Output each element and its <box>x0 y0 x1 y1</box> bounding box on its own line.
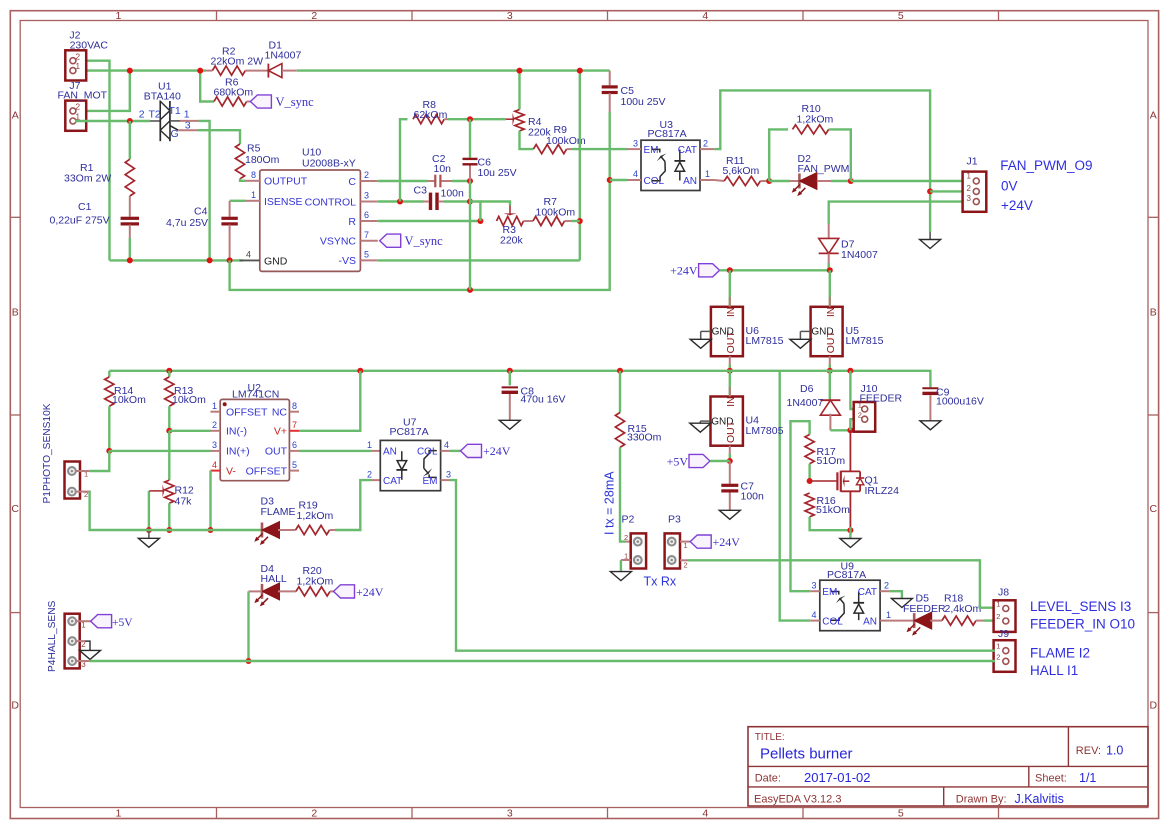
svg-text:8: 8 <box>292 401 297 411</box>
wire U9 AN to D5 <box>890 620 915 622</box>
capacitor C9 <box>922 387 938 389</box>
wire +24V rail <box>720 269 830 271</box>
svg-text:CAT: CAT <box>678 145 697 156</box>
wire node to D2 cathode <box>769 180 790 182</box>
junction -VS/DC bus <box>577 68 583 74</box>
svg-text:1: 1 <box>75 61 80 71</box>
regulator U6 LM7815 <box>711 307 743 356</box>
wire gate <box>810 480 839 482</box>
ground at P4 <box>80 650 101 659</box>
wire C3 to C6 column <box>444 200 470 202</box>
junction bus/C8 <box>507 368 513 374</box>
wire R9 to U3 pin3 <box>567 148 572 150</box>
svg-text:P1PHOTO_SENS10K: P1PHOTO_SENS10K <box>42 403 53 503</box>
wire LEVEL_SENS long wire to J8 pin1 <box>688 560 995 607</box>
wire U6 OUT to +15 bus <box>729 365 731 371</box>
svg-text:2: 2 <box>75 51 80 61</box>
junction -VS/R7 <box>577 218 583 224</box>
svg-text:3: 3 <box>507 10 513 22</box>
svg-text:LM7805: LM7805 <box>746 425 784 437</box>
svg-text:C: C <box>348 176 356 188</box>
svg-text:FEEDER_IN O10: FEEDER_IN O10 <box>1030 617 1135 632</box>
svg-text:2: 2 <box>967 184 972 193</box>
svg-text:+5V: +5V <box>667 454 689 468</box>
wire U4 OUT to +5V node <box>729 454 731 462</box>
svg-text:100u 25V: 100u 25V <box>621 96 666 108</box>
wire GND bus under U10 <box>110 259 244 261</box>
svg-text:FLAME I2: FLAME I2 <box>1030 645 1090 660</box>
svg-text:A: A <box>1150 110 1157 122</box>
svg-text:0V: 0V <box>1001 179 1018 194</box>
junction bus/R13 <box>166 368 172 374</box>
svg-text:I tx = 28mA: I tx = 28mA <box>603 471 617 535</box>
U2 pin1 marker dot <box>223 402 227 406</box>
U10 pin 7 VSYNC <box>360 240 377 242</box>
svg-text:51kOm: 51kOm <box>816 504 850 516</box>
U2 pin 6 OUT <box>289 450 299 452</box>
svg-text:7: 7 <box>364 230 369 240</box>
wire +15V bus <box>109 371 930 388</box>
diode D1 <box>267 64 269 78</box>
ground at sensor bus <box>148 530 150 538</box>
wire J2.1 phase to R2 <box>75 69 206 71</box>
resistor R14 <box>108 371 110 377</box>
svg-text:5: 5 <box>898 10 904 22</box>
wire R8 to R4 wiper arrow <box>444 118 448 120</box>
capacitor C2 <box>428 180 435 182</box>
wire C6 column <box>469 119 471 158</box>
svg-text:33Om 2W: 33Om 2W <box>64 173 111 185</box>
svg-text:LM7815: LM7815 <box>846 335 884 347</box>
resistor R13 <box>168 371 170 377</box>
ground at U9 CAT <box>891 599 912 608</box>
wire R8 branch vertical <box>400 119 408 201</box>
svg-text:5: 5 <box>292 460 297 470</box>
resistor R11 <box>724 176 760 185</box>
junction +24V/U6 <box>727 267 733 273</box>
svg-text:COL: COL <box>417 447 438 458</box>
svg-text:ISENSE: ISENSE <box>264 196 303 208</box>
svg-text:4: 4 <box>212 460 217 470</box>
svg-text:2: 2 <box>703 138 708 148</box>
connector J9 <box>994 640 1016 672</box>
wire IN- to U2 pin2 <box>169 430 210 432</box>
svg-text:OUT: OUT <box>725 331 737 354</box>
svg-text:1: 1 <box>967 172 972 181</box>
svg-text:P3: P3 <box>668 514 681 526</box>
net flag V_sync at U10 VSYNC <box>380 234 401 247</box>
svg-text:IN(-): IN(-) <box>226 426 247 438</box>
svg-text:7: 7 <box>292 420 297 430</box>
resistor R6 <box>214 97 247 106</box>
svg-text:1: 1 <box>251 190 256 200</box>
svg-text:OUT: OUT <box>725 420 737 443</box>
svg-text:2: 2 <box>684 561 688 570</box>
svg-text:1: 1 <box>886 610 891 620</box>
resistor R17 <box>805 435 814 464</box>
svg-text:3: 3 <box>507 807 513 819</box>
led D5 <box>913 613 916 628</box>
svg-text:CAT: CAT <box>383 476 402 487</box>
wire R3 to R7 <box>524 220 534 222</box>
svg-text:B: B <box>12 307 19 319</box>
U2 pin 1 OFFSET <box>211 411 221 413</box>
regulator U5 LM7815 <box>811 307 843 356</box>
potentiometer R3 <box>497 216 524 225</box>
U6 pin stubs <box>729 297 731 307</box>
svg-text:OFFSET: OFFSET <box>246 465 288 477</box>
svg-text:FAN_MOT: FAN_MOT <box>58 90 108 102</box>
wire D1 to DC bus <box>282 70 297 72</box>
svg-text:1/1: 1/1 <box>1079 771 1096 785</box>
U3 internal diode <box>679 150 681 161</box>
svg-text:LM741CN: LM741CN <box>232 389 279 401</box>
U3 pin 1 AN <box>700 179 714 181</box>
U9 pin 3 EM <box>810 590 820 592</box>
svg-text:3: 3 <box>633 138 638 148</box>
wire IN+ to U2 pin3 <box>109 450 210 452</box>
wire P4.1 to +5V flag <box>75 620 91 622</box>
svg-text:AN: AN <box>383 447 397 458</box>
wire R17 to gate node <box>808 464 810 481</box>
svg-text:10n: 10n <box>434 163 452 175</box>
junction C2/C6 column <box>467 178 473 184</box>
wire R6 to V_sync flag <box>247 101 251 103</box>
svg-text:330Om: 330Om <box>627 432 662 444</box>
connector J1 <box>963 172 987 212</box>
svg-text:0,22uF 275V: 0,22uF 275V <box>50 215 110 227</box>
U10 pin 2 C <box>360 180 377 182</box>
svg-text:+24V: +24V <box>713 535 741 549</box>
svg-text:2: 2 <box>75 102 80 112</box>
svg-text:1N4007: 1N4007 <box>787 397 824 409</box>
svg-text:G: G <box>171 128 179 140</box>
resistor R7 <box>533 216 565 225</box>
svg-text:1: 1 <box>115 807 121 819</box>
U4 pin stubs <box>729 387 731 397</box>
ground at C7 <box>719 510 740 519</box>
junction C3/C6 column <box>467 199 473 205</box>
frame column ticks <box>216 11 218 21</box>
svg-text:OFFSET: OFFSET <box>226 406 268 418</box>
U2 pin 5 OFFSET <box>289 470 299 472</box>
connector P2 <box>631 533 646 568</box>
wire R14 to IN+ node <box>108 406 110 451</box>
svg-text:100n: 100n <box>441 187 465 199</box>
diode D7 <box>828 224 830 240</box>
ground at C9 <box>920 421 941 430</box>
svg-text:+24V: +24V <box>670 264 698 278</box>
junction source node <box>847 527 853 533</box>
svg-text:NC: NC <box>272 406 288 418</box>
wire CONTROL jumper to R3 left <box>470 202 480 222</box>
svg-text:2: 2 <box>139 108 145 120</box>
svg-text:3: 3 <box>212 440 217 450</box>
svg-text:2: 2 <box>996 612 1000 621</box>
svg-text:4: 4 <box>812 610 817 620</box>
junction D6/J10.2/Q1 drain <box>847 427 853 433</box>
U10 pin 3 CONTROL <box>360 201 377 203</box>
wire U6 IN <box>729 270 731 307</box>
svg-text:3: 3 <box>967 194 972 203</box>
U7 internal diode <box>401 451 403 460</box>
svg-text:Tx Rx: Tx Rx <box>644 574 677 588</box>
U9 internal diode <box>858 592 860 603</box>
svg-text:OUT: OUT <box>825 331 837 354</box>
svg-text:1: 1 <box>705 169 710 179</box>
wire U3 AN to R11 <box>714 180 724 181</box>
junction J2.1/J7.2 <box>127 68 133 74</box>
svg-text:62kOm: 62kOm <box>414 109 448 121</box>
wire R1/C1 branch down <box>129 121 131 159</box>
resistor R5 <box>235 144 244 179</box>
capacitor C1 <box>121 217 139 220</box>
wire R5 to U10 pin8 <box>240 179 246 181</box>
connector J8 <box>994 600 1016 632</box>
svg-text:1,2kOm: 1,2kOm <box>797 114 834 126</box>
svg-text:PC817A: PC817A <box>827 569 866 581</box>
svg-text:2: 2 <box>212 420 217 430</box>
wire D4 cathode down to HALL wire <box>249 590 263 592</box>
svg-text:EM: EM <box>644 145 659 156</box>
svg-text:2: 2 <box>884 580 889 590</box>
svg-text:+24V: +24V <box>483 444 511 458</box>
svg-text:CAT: CAT <box>858 587 877 598</box>
svg-text:REV:: REV: <box>1076 745 1101 757</box>
wire U9 CAT to ground <box>890 591 902 598</box>
svg-text:10u 25V: 10u 25V <box>478 167 517 179</box>
svg-text:1.0: 1.0 <box>1106 743 1123 757</box>
junction IN- node <box>166 428 172 434</box>
wire J7.1 to triac T2 <box>75 120 150 122</box>
wire J1 pin3 to D7 <box>829 202 973 224</box>
wire R7 to -VS vertical <box>565 220 572 222</box>
wire R18 to J8 pin2 <box>976 620 984 622</box>
wire branch to J7.2 <box>75 71 130 111</box>
junction C1/GND bus <box>127 257 133 263</box>
resistor R20 <box>278 590 296 592</box>
svg-text:HALL: HALL <box>261 573 287 585</box>
junction bus/R15 <box>617 368 623 374</box>
svg-text:B: B <box>1150 307 1157 319</box>
capacitor C4 <box>229 201 231 217</box>
U2 pin 7 V+ <box>289 430 299 432</box>
svg-text:1000u16V: 1000u16V <box>936 396 984 408</box>
svg-text:TITLE:: TITLE: <box>755 732 785 743</box>
svg-text:+24V: +24V <box>1001 198 1033 213</box>
svg-text:PC817A: PC817A <box>390 426 429 438</box>
svg-text:1N4007: 1N4007 <box>265 49 302 61</box>
opamp U2 LM741CN box <box>220 399 289 480</box>
svg-text:T2: T2 <box>149 109 161 121</box>
junction J7.1/R1 <box>127 118 133 124</box>
svg-text:V_sync: V_sync <box>276 95 315 109</box>
svg-text:8: 8 <box>251 170 256 180</box>
wire P2.1 to ground <box>621 559 631 561</box>
U10 pin 1 ISENSE <box>246 200 260 202</box>
optocoupler U9 PC817A box <box>820 580 880 631</box>
svg-text:FEEDER: FEEDER <box>860 393 903 405</box>
potentiometer R4 <box>518 71 520 110</box>
U10 pin 8 OUTPUT <box>246 180 260 182</box>
wire J1 pin2 <box>930 190 973 192</box>
R12 wiper arrow <box>148 491 150 530</box>
svg-text:4: 4 <box>702 807 708 819</box>
U5 pin stubs <box>829 297 831 307</box>
resistor R8 <box>413 115 444 124</box>
svg-text:2: 2 <box>624 533 628 542</box>
wire R13 to IN- node <box>168 406 170 431</box>
svg-text:LM7815: LM7815 <box>746 335 784 347</box>
connector J2 <box>65 50 86 80</box>
led D2 <box>798 174 801 189</box>
wire P3.1 to +24V flag <box>680 541 690 543</box>
connector J10 FEEDER <box>854 402 876 432</box>
svg-text:1: 1 <box>367 440 372 450</box>
net flag +24V at R20 <box>334 585 355 598</box>
svg-text:1N4007: 1N4007 <box>841 249 878 261</box>
resistor R19 <box>278 529 296 531</box>
wire C1 to GND bus <box>129 225 131 238</box>
svg-text:C3: C3 <box>414 185 428 197</box>
wire triac gate to R5 <box>178 129 198 131</box>
U2 pin 2 IN(-) <box>211 430 221 432</box>
connector P4 <box>65 614 80 669</box>
wire R1 to C1 <box>129 196 131 217</box>
wire U4 IN <box>729 371 731 397</box>
svg-text:Pellets burner: Pellets burner <box>760 746 853 763</box>
svg-text:230VAC: 230VAC <box>70 39 109 51</box>
svg-text:2: 2 <box>311 10 317 22</box>
svg-text:D: D <box>1150 700 1158 712</box>
svg-text:FAN_PWM: FAN_PWM <box>798 163 850 175</box>
wire P4.3 HALL long wire <box>75 660 90 662</box>
svg-text:1: 1 <box>996 599 1000 608</box>
svg-text:-VS: -VS <box>338 255 356 267</box>
wire triac T1 to GND bus <box>170 120 180 122</box>
svg-text:D: D <box>11 700 19 712</box>
junction IN+ node <box>106 448 112 454</box>
wire R16 to source node <box>810 517 851 530</box>
net flag +24V at U7 <box>461 444 482 457</box>
svg-text:1: 1 <box>996 642 1000 651</box>
ground at Q1 source <box>840 539 861 548</box>
wire U2 V+ to +15 bus <box>299 371 360 431</box>
capacitor C6 <box>463 158 478 160</box>
connector J7 <box>65 101 86 131</box>
wire D5 to R18 <box>930 620 942 622</box>
U7 internal phototransistor <box>429 451 437 454</box>
svg-text:680kOm: 680kOm <box>214 86 254 98</box>
wire R19 to U7 CAT <box>330 529 336 531</box>
resistor R9 <box>533 145 566 154</box>
optocoupler U7 PC817A box <box>380 440 440 490</box>
svg-text:+5V: +5V <box>112 617 133 629</box>
wire R15 to P2 pin2 <box>620 447 625 541</box>
capacitor C8 <box>509 371 511 386</box>
wire R20 to flag <box>330 590 334 592</box>
svg-text:Sheet:: Sheet: <box>1035 773 1067 785</box>
svg-text:2: 2 <box>311 807 317 819</box>
svg-text:100n: 100n <box>741 491 765 503</box>
svg-text:1,2kOm: 1,2kOm <box>297 576 334 588</box>
svg-text:J9: J9 <box>998 628 1009 640</box>
wire ISENSE to C4 <box>230 200 246 202</box>
junction U5 OUT bus <box>827 368 833 374</box>
transistor Q1 IRLZ24 <box>836 472 838 490</box>
svg-text:1: 1 <box>115 10 121 22</box>
wire U10 C pin to C2 <box>378 180 428 182</box>
led D3 <box>261 523 264 538</box>
U10 pin 6 R <box>360 220 377 222</box>
junction bus/J10.1 <box>847 368 853 374</box>
ground at U4 <box>700 420 710 422</box>
svg-text:BTA140: BTA140 <box>144 90 181 102</box>
svg-text:J1: J1 <box>967 155 978 167</box>
junction V-/sensor bus <box>208 527 214 533</box>
junction R12/sensor bus <box>166 527 172 533</box>
optocoupler U3 PC817A box <box>641 140 700 190</box>
wire D2 anode to J1.1 node <box>817 180 831 182</box>
svg-text:220k: 220k <box>500 235 524 247</box>
wire P1.1 to IN+ node <box>75 470 89 472</box>
resistor R16 <box>805 493 814 517</box>
wire R12 bottom to sensor bus <box>168 503 170 530</box>
wire U10 CONTROL to C3 <box>378 200 424 202</box>
junction U6 OUT bus <box>727 368 733 374</box>
svg-text:AN: AN <box>683 176 697 187</box>
junction GND-bus/C6 column <box>467 287 473 293</box>
svg-text:C1: C1 <box>78 201 92 213</box>
svg-text:R: R <box>348 216 356 228</box>
wire U10 -VS to vertical <box>378 259 580 261</box>
wire J2.2 to GND bus (long left vertical) <box>75 61 110 261</box>
wire R11 to D2 node <box>760 180 766 182</box>
svg-text:470u 16V: 470u 16V <box>521 394 566 406</box>
svg-text:FLAME: FLAME <box>261 506 296 518</box>
U2 pin 3 IN(+) <box>211 450 221 452</box>
svg-text:Drawn By:: Drawn By: <box>956 794 1007 806</box>
svg-text:100kOm: 100kOm <box>536 206 576 218</box>
svg-text:2017-01-02: 2017-01-02 <box>804 770 871 785</box>
net flag V_sync (top) <box>250 95 271 108</box>
U9 internal phototransistor <box>831 592 839 595</box>
connector P3 <box>665 533 680 568</box>
svg-text:4: 4 <box>444 440 449 450</box>
svg-text:D6: D6 <box>800 383 814 395</box>
resistor R18 <box>942 616 976 625</box>
junction C5 bottom / U3 pin4 <box>607 177 613 183</box>
svg-text:4: 4 <box>633 169 638 179</box>
wire GND net down to positive bus <box>230 186 610 290</box>
wire U9 COL net from +15 bus <box>780 371 811 621</box>
wire source node stub <box>849 527 851 539</box>
led D4 <box>261 584 264 599</box>
triac U1 BTA140 <box>159 101 161 141</box>
ground below J1 <box>929 232 931 240</box>
potentiometer R12 <box>165 480 174 503</box>
wire R13 node down to R12 <box>168 431 170 480</box>
svg-text:IN: IN <box>726 397 737 407</box>
U3 pin 2 CAT <box>700 148 714 150</box>
svg-text:V-: V- <box>226 465 236 477</box>
junction bus/V+ <box>357 368 363 374</box>
ground at U5 <box>800 330 810 332</box>
U7 pin 4 COL <box>441 450 450 452</box>
diode D6 flyback <box>829 371 831 400</box>
wire U7 EM down to FLAME wire <box>450 480 995 651</box>
svg-text:J.Kalvitis: J.Kalvitis <box>1015 792 1064 806</box>
